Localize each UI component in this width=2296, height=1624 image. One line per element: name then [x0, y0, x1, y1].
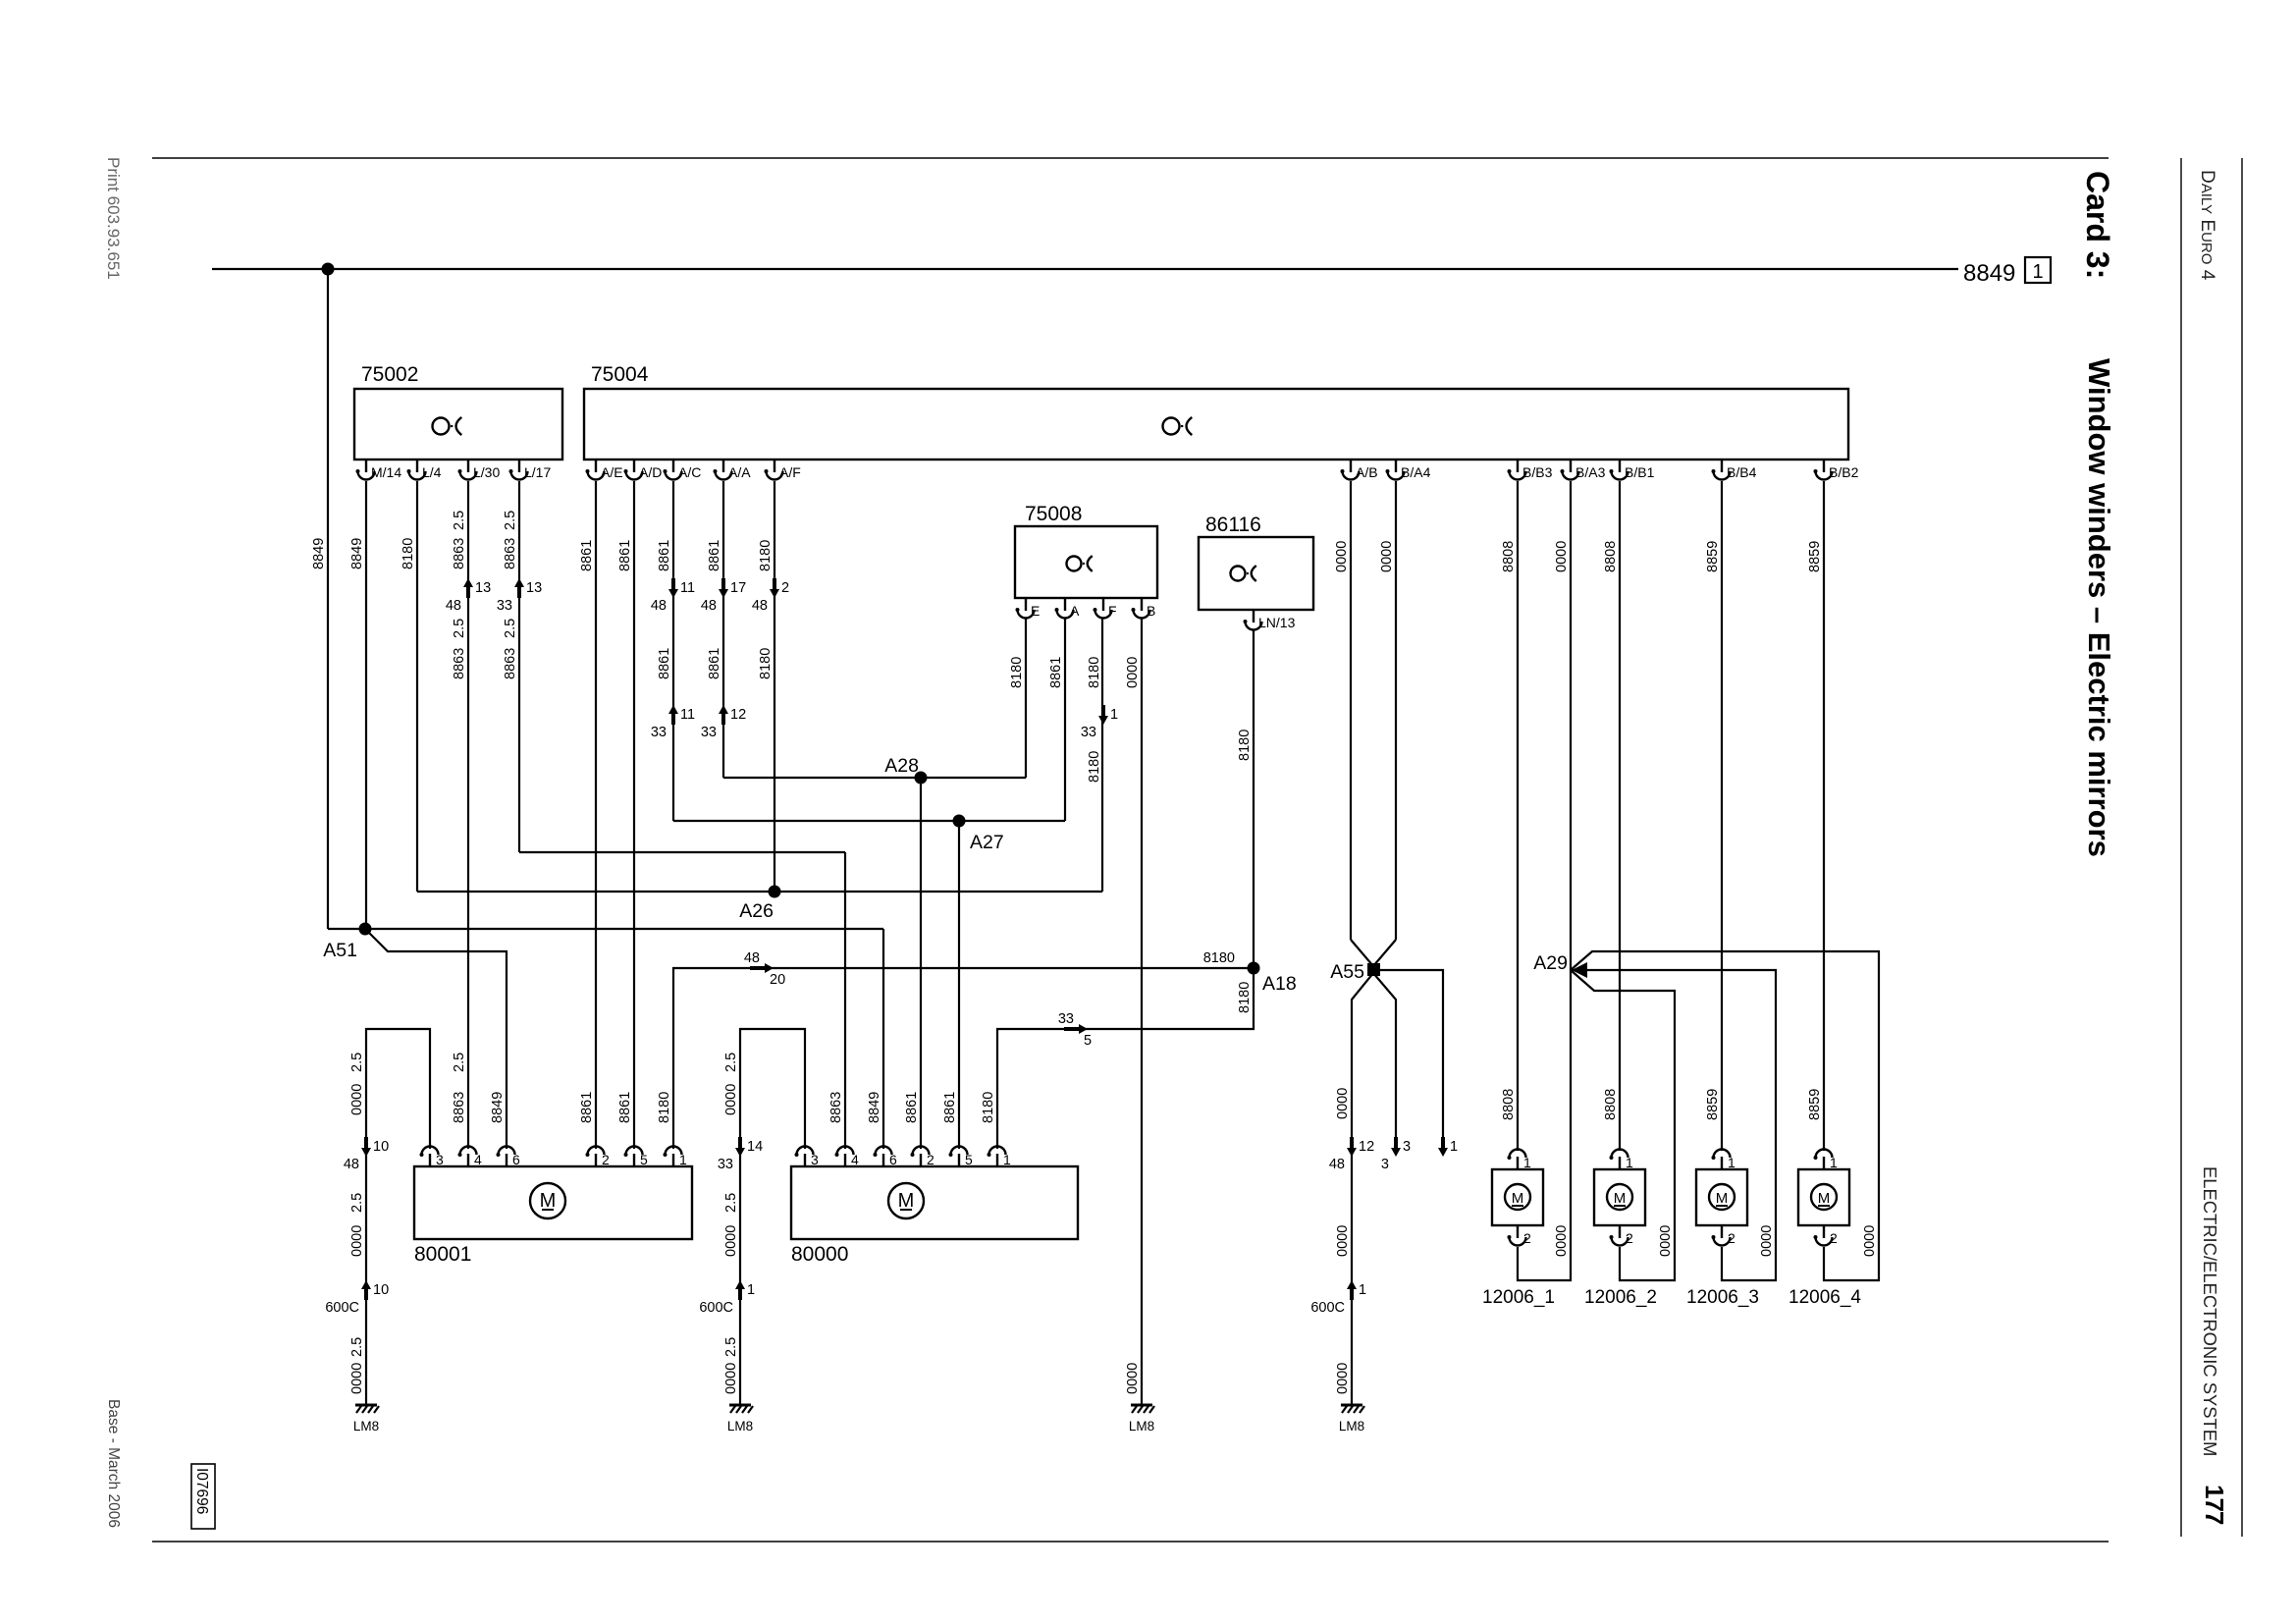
svg-text:1: 1 [1523, 1155, 1531, 1170]
svg-text:2.5: 2.5 [723, 1193, 739, 1213]
motor symbol in 12006_4 [1811, 1184, 1837, 1210]
svg-text:LN/13: LN/13 [1258, 615, 1296, 630]
svg-text:A55: A55 [1330, 961, 1364, 983]
wire 0000 from B/A3 through A29 to mirror 1 [1518, 481, 1571, 1280]
switch panel 75004 [584, 389, 1848, 460]
connector 48 pin 12 [1350, 1137, 1354, 1149]
svg-text:DAILY EURO 4: DAILY EURO 4 [2197, 170, 2217, 281]
wire 8863 from L/30 to 80001 pin 4 [467, 481, 469, 1149]
pin 2 of 12006_2 [1612, 1225, 1629, 1246]
svg-text:Card 3:: Card 3: [2080, 171, 2115, 279]
connector pin 1 stub [1441, 1137, 1445, 1149]
pin 1 of 12006_3 [1714, 1150, 1731, 1170]
svg-text:8180: 8180 [1087, 751, 1102, 783]
wire 80000 pin 3 to ground column [740, 1029, 805, 1405]
svg-text:A18: A18 [1262, 973, 1297, 995]
connector 48 pin 10 [364, 1137, 368, 1149]
wire A55 top-left diagonal [1351, 940, 1373, 966]
pin 2 of 12006_3 [1714, 1225, 1731, 1246]
svg-text:86116: 86116 [1205, 514, 1261, 536]
wire down to 80000 pin 5 [958, 821, 960, 1149]
pin 1 of 80001 [666, 1147, 682, 1167]
svg-text:B/A4: B/A4 [1401, 464, 1431, 480]
svg-text:8849: 8849 [349, 538, 365, 569]
svg-text:0000: 0000 [1759, 1225, 1775, 1257]
wire 8863 from L/17 [518, 481, 520, 852]
svg-text:8861: 8861 [617, 1092, 633, 1123]
svg-text:2.5: 2.5 [452, 511, 467, 530]
svg-text:2.5: 2.5 [349, 1053, 365, 1072]
motor symbol in 80001 [530, 1183, 565, 1218]
svg-text:B/B1: B/B1 [1625, 464, 1655, 480]
svg-text:33: 33 [1081, 725, 1096, 740]
svg-text:M: M [1716, 1190, 1729, 1207]
pin M/14 of 75002 [358, 460, 375, 480]
svg-text:0000: 0000 [349, 1084, 365, 1115]
pin A/B of 75004 [1343, 460, 1360, 480]
connector 33 pin 1 on 75008 pin F wire [1101, 705, 1105, 717]
svg-text:8861: 8861 [657, 540, 672, 571]
svg-text:A/A: A/A [728, 464, 751, 480]
pin B/B4 of 75004 [1714, 460, 1731, 480]
svg-text:600C: 600C [325, 1300, 359, 1316]
wire A29 bottom branch to mirror 2 return [1571, 970, 1675, 1280]
svg-text:8861: 8861 [904, 1092, 920, 1123]
lamp symbol in 75008 [1067, 557, 1082, 571]
svg-text:8861: 8861 [707, 648, 722, 679]
wire A55 to ground column [1352, 973, 1373, 1405]
wire 8180 from A/F to A26 [774, 481, 775, 892]
svg-text:L/30: L/30 [473, 464, 500, 480]
svg-text:48: 48 [1329, 1157, 1345, 1172]
pin A/A of 75004 [716, 460, 732, 480]
svg-text:2: 2 [1523, 1230, 1531, 1246]
pin E of 75008 [1018, 598, 1035, 619]
svg-text:6: 6 [889, 1152, 897, 1167]
svg-text:2.5: 2.5 [452, 619, 467, 638]
wire 8859 from B/B4 to mirror 3 [1721, 481, 1723, 1151]
svg-text:8180: 8180 [400, 538, 416, 569]
node A26 [769, 886, 781, 898]
svg-text:8859: 8859 [1705, 1089, 1721, 1120]
pin B of 75008 [1134, 598, 1150, 619]
wire A28 across [723, 777, 1026, 779]
svg-text:A26: A26 [739, 900, 774, 922]
svg-text:48: 48 [752, 598, 768, 614]
svg-text:8861: 8861 [707, 540, 722, 571]
svg-text:8849: 8849 [1963, 260, 2015, 287]
svg-text:33: 33 [718, 1157, 733, 1172]
motor symbol in 12006_1 [1505, 1184, 1530, 1210]
connector 600C pin 1 col2 [738, 1288, 742, 1300]
svg-text:8180: 8180 [981, 1092, 996, 1123]
svg-text:6: 6 [512, 1152, 520, 1167]
pin B/A3 of 75004 [1563, 460, 1579, 480]
svg-text:M: M [898, 1190, 915, 1212]
pin 4 of 80001 [460, 1147, 477, 1167]
connector 3 pin 3 [1394, 1137, 1398, 1149]
node A28 [915, 772, 928, 785]
wire 8859 from B/B2 to mirror 4 [1823, 481, 1825, 1151]
motor symbol in 12006_2 [1607, 1184, 1632, 1210]
svg-text:A29: A29 [1533, 952, 1568, 974]
svg-text:A27: A27 [970, 832, 1004, 853]
svg-text:8180: 8180 [758, 540, 774, 571]
svg-text:75004: 75004 [591, 363, 649, 386]
wire A51 branch to 80001 pin 6 [368, 932, 507, 1149]
svg-text:E: E [1031, 603, 1040, 619]
svg-text:8861: 8861 [579, 540, 595, 571]
switch 86116 [1199, 537, 1313, 610]
pin 5 of 80001 [626, 1147, 643, 1167]
svg-text:8863: 8863 [452, 648, 467, 679]
svg-text:LM8: LM8 [1339, 1419, 1364, 1434]
svg-text:8849: 8849 [867, 1092, 882, 1123]
svg-text:12: 12 [730, 707, 746, 723]
svg-text:Window winders – Electric mirr: Window winders – Electric mirrors [2082, 358, 2116, 857]
svg-text:5: 5 [1084, 1033, 1092, 1049]
connector 33 pin 12 on A/A wire [721, 713, 725, 725]
svg-text:2: 2 [781, 580, 789, 596]
svg-text:177: 177 [2200, 1485, 2229, 1525]
motor symbol in 12006_3 [1709, 1184, 1735, 1210]
svg-text:600C: 600C [699, 1300, 733, 1316]
pin 6 of 80001 [499, 1147, 515, 1167]
svg-text:33: 33 [497, 598, 512, 614]
svg-text:M: M [1818, 1190, 1831, 1207]
svg-text:17: 17 [730, 580, 746, 596]
pin A of 75008 [1057, 598, 1074, 619]
pin A/C of 75004 [666, 460, 682, 480]
wire A27 across [673, 820, 1065, 822]
svg-text:M: M [1614, 1190, 1627, 1207]
pin L/4 of 75002 [409, 460, 426, 480]
pin 2 of 12006_1 [1510, 1225, 1526, 1246]
svg-text:1: 1 [747, 1282, 755, 1298]
svg-text:48: 48 [744, 950, 760, 966]
pin L/30 of 75002 [460, 460, 477, 480]
svg-text:8861: 8861 [617, 540, 633, 571]
wire 8861 from A/A to A28 [722, 481, 724, 778]
svg-text:A28: A28 [884, 755, 919, 777]
svg-text:M/14: M/14 [371, 464, 401, 480]
connector 48 pin 13 on L/30 wire [466, 586, 470, 598]
pin 1 of 12006_2 [1612, 1150, 1629, 1170]
node A29 [1572, 962, 1587, 978]
svg-text:8849: 8849 [490, 1092, 506, 1123]
svg-text:8180: 8180 [657, 1092, 672, 1123]
svg-text:5: 5 [640, 1152, 648, 1167]
svg-text:A/D: A/D [639, 464, 662, 480]
svg-text:2.5: 2.5 [723, 1337, 739, 1357]
right separator rule 2 [2241, 158, 2243, 1537]
svg-text:M: M [540, 1190, 557, 1212]
switch 75002 [354, 389, 562, 460]
node A18 [1248, 962, 1260, 975]
svg-text:1: 1 [679, 1152, 687, 1167]
pin LN/13 of 86116 [1246, 610, 1262, 630]
pin 4 of 80000 [837, 1147, 854, 1167]
svg-text:80001: 80001 [414, 1243, 471, 1266]
svg-text:1: 1 [1626, 1155, 1633, 1170]
svg-text:0000: 0000 [1334, 541, 1350, 572]
svg-text:33: 33 [1058, 1011, 1074, 1027]
svg-text:11: 11 [680, 707, 695, 723]
svg-text:2.5: 2.5 [503, 511, 518, 530]
ground LM8 center [729, 1404, 751, 1407]
pin 1 of 80000 [989, 1147, 1006, 1167]
wire 8808 from B/B3 to mirror 1 [1517, 481, 1519, 1151]
svg-text:Print 603.93.651: Print 603.93.651 [104, 157, 123, 280]
connector 33 pin 13 on L/17 wire [517, 586, 521, 598]
svg-text:3: 3 [811, 1152, 819, 1167]
svg-text:0000: 0000 [1554, 541, 1570, 572]
pin 2 of 80001 [588, 1147, 605, 1167]
svg-text:B/B3: B/B3 [1522, 464, 1553, 480]
svg-text:8808: 8808 [1501, 1089, 1517, 1120]
wire 8180 from 80001 pin 1 to A18 [673, 968, 1254, 1149]
wire A29 middle branch to mirror 3 return [1571, 970, 1776, 1280]
wire 8808 from B/B1 to mirror 2 [1619, 481, 1621, 1151]
connector 48 pin 11 on A/C wire [671, 578, 675, 590]
wire up to 75008 pin F [1101, 619, 1103, 892]
svg-text:0000: 0000 [1379, 541, 1395, 572]
svg-text:12: 12 [1359, 1139, 1374, 1155]
page top rule [152, 157, 2109, 159]
wire A29 top branch to mirror 4 return [1571, 951, 1879, 1280]
svg-text:0000: 0000 [1125, 657, 1141, 688]
lamp symbol in 75002 [433, 418, 450, 435]
svg-text:8808: 8808 [1603, 1089, 1619, 1120]
mirror motor 12006_2 [1594, 1169, 1645, 1225]
svg-text:11: 11 [680, 580, 695, 596]
connector 600C pin 10 [364, 1288, 368, 1300]
svg-text:3: 3 [1403, 1139, 1411, 1155]
svg-text:8849: 8849 [311, 538, 327, 569]
svg-text:8861: 8861 [579, 1092, 595, 1123]
svg-text:LM8: LM8 [1129, 1419, 1154, 1434]
svg-text:8863: 8863 [828, 1092, 844, 1123]
pin 3 of 80001 [422, 1147, 439, 1167]
svg-text:1: 1 [1450, 1139, 1458, 1155]
svg-text:Base - March 2006: Base - March 2006 [105, 1399, 122, 1528]
wire 8861 from A/E to 80001 pin 2 [595, 481, 597, 1149]
lamp symbol in 86116 [1231, 567, 1246, 581]
node A55 [1367, 963, 1380, 976]
pin 1 of 12006_4 [1816, 1150, 1833, 1170]
svg-text:12006_2: 12006_2 [1584, 1287, 1657, 1308]
pin 5 of 80000 [951, 1147, 968, 1167]
svg-text:0000: 0000 [1862, 1225, 1878, 1257]
svg-text:8861: 8861 [657, 648, 672, 679]
svg-text:2: 2 [927, 1152, 934, 1167]
wire 0000 from B/A4 to A55 [1395, 481, 1397, 940]
svg-text:A/B: A/B [1356, 464, 1378, 480]
pin L/17 of 75002 [511, 460, 528, 480]
svg-text:L/4: L/4 [422, 464, 442, 480]
ground LM8 left [355, 1404, 377, 1407]
svg-text:2.5: 2.5 [349, 1193, 365, 1213]
svg-text:3: 3 [436, 1152, 444, 1167]
svg-text:80000: 80000 [791, 1243, 848, 1266]
svg-text:8861: 8861 [942, 1092, 958, 1123]
svg-text:LM8: LM8 [353, 1419, 379, 1434]
svg-text:1: 1 [1728, 1155, 1735, 1170]
switch 75008 [1015, 526, 1157, 598]
svg-text:8863: 8863 [503, 538, 518, 569]
svg-text:1: 1 [1359, 1282, 1366, 1298]
svg-text:8863: 8863 [503, 648, 518, 679]
svg-text:75008: 75008 [1025, 503, 1082, 525]
wire up to 75008 pin A [1064, 619, 1066, 821]
svg-text:2.5: 2.5 [452, 1053, 467, 1072]
svg-text:14: 14 [747, 1139, 763, 1155]
svg-text:B/A3: B/A3 [1575, 464, 1606, 480]
pin 6 of 80000 [876, 1147, 892, 1167]
svg-text:13: 13 [526, 580, 542, 596]
svg-text:2: 2 [602, 1152, 610, 1167]
svg-text:0000: 0000 [1658, 1225, 1674, 1257]
pin B/B1 of 75004 [1612, 460, 1629, 480]
svg-text:12006_3: 12006_3 [1686, 1287, 1759, 1308]
svg-text:8859: 8859 [1705, 541, 1721, 572]
wire L/17 across to 80000 pin 4 [519, 851, 845, 853]
svg-text:0000: 0000 [1335, 1088, 1351, 1119]
pin 3 of 80000 [797, 1147, 814, 1167]
pin A/D of 75004 [626, 460, 643, 480]
wire 8849 supply bus [212, 268, 1958, 270]
page bottom rule [152, 1541, 2109, 1543]
svg-text:B/B4: B/B4 [1727, 464, 1757, 480]
svg-text:0000: 0000 [1554, 1225, 1570, 1257]
ground LM8 right [1341, 1404, 1362, 1407]
svg-text:1: 1 [1830, 1155, 1838, 1170]
svg-text:1: 1 [1110, 707, 1118, 723]
svg-text:2: 2 [1830, 1230, 1838, 1246]
lamp symbol in 75004 [1163, 418, 1180, 435]
svg-text:2.5: 2.5 [503, 619, 518, 638]
svg-text:12006_4: 12006_4 [1789, 1287, 1861, 1308]
svg-text:2.5: 2.5 [723, 1053, 739, 1072]
wire 8861 from A/D to 80001 pin 5 [633, 481, 635, 1149]
wire 8861 from A/C to A27 [672, 481, 674, 821]
wire down to 80000 pin 4 [844, 852, 846, 1149]
pin F of 75008 [1095, 598, 1112, 619]
svg-text:ELECTRIC/ELECTRONIC SYSTEM: ELECTRIC/ELECTRONIC SYSTEM [2200, 1166, 2220, 1456]
connector 48 pin 2 on A/F wire [773, 578, 776, 590]
svg-text:8859: 8859 [1807, 1089, 1823, 1120]
connector 33 pin 14 [738, 1137, 742, 1149]
connector 33 pin 5 inline [1064, 1027, 1080, 1031]
svg-text:8180: 8180 [1009, 657, 1025, 688]
pin 2 of 80000 [913, 1147, 930, 1167]
pin B/B2 of 75004 [1816, 460, 1833, 480]
svg-text:2.5: 2.5 [349, 1337, 365, 1357]
wire down to 80000 pin 2 [920, 778, 922, 1149]
svg-text:8861: 8861 [1048, 657, 1064, 688]
svg-text:8180: 8180 [1237, 982, 1253, 1013]
pin B/A4 of 75004 [1388, 460, 1405, 480]
svg-text:L/17: L/17 [524, 464, 551, 480]
svg-text:8808: 8808 [1603, 541, 1619, 572]
wire 0000 from A/B to A55 [1350, 481, 1352, 940]
svg-text:20: 20 [770, 972, 785, 988]
svg-text:A/C: A/C [678, 464, 701, 480]
svg-text:600C: 600C [1310, 1300, 1345, 1316]
svg-text:10: 10 [373, 1139, 389, 1155]
svg-text:8863: 8863 [452, 538, 467, 569]
svg-text:0000: 0000 [349, 1363, 365, 1394]
pin B/B3 of 75004 [1510, 460, 1526, 480]
svg-text:8808: 8808 [1501, 541, 1517, 572]
svg-text:F: F [1108, 603, 1117, 619]
motor 80001 [414, 1166, 692, 1239]
svg-text:A: A [1070, 603, 1080, 619]
wire 0000 from 75008 pin B to ground [1141, 619, 1143, 1405]
svg-text:8180: 8180 [1203, 950, 1235, 966]
svg-text:5: 5 [965, 1152, 973, 1167]
wire A26 across [417, 891, 1102, 893]
svg-text:8180: 8180 [1237, 730, 1253, 761]
svg-text:A/E: A/E [601, 464, 623, 480]
svg-text:1: 1 [1003, 1152, 1011, 1167]
wire 8180 from 86116 LN/13 to A18 [1253, 630, 1255, 968]
wire 8180 from L/4 to A26 line [416, 481, 418, 892]
svg-text:48: 48 [344, 1157, 359, 1172]
pin A/E of 75004 [588, 460, 605, 480]
svg-text:48: 48 [651, 598, 667, 614]
svg-text:A51: A51 [323, 940, 357, 961]
svg-text:I07696: I07696 [193, 1468, 210, 1514]
motor symbol in 80000 [888, 1183, 924, 1218]
connector 48 pin 20 inline [750, 966, 766, 970]
pin A/F of 75004 [767, 460, 783, 480]
svg-text:48: 48 [446, 598, 461, 614]
svg-text:0000: 0000 [1125, 1363, 1141, 1394]
ground LM8 for 75008 [1131, 1404, 1152, 1407]
svg-text:2: 2 [1728, 1230, 1735, 1246]
mirror motor 12006_4 [1798, 1169, 1849, 1225]
svg-text:0000: 0000 [723, 1084, 739, 1115]
svg-text:M: M [1512, 1190, 1524, 1207]
svg-text:A/F: A/F [779, 464, 801, 480]
svg-text:0000: 0000 [723, 1363, 739, 1394]
svg-text:0000: 0000 [723, 1225, 739, 1257]
svg-text:33: 33 [701, 725, 717, 740]
pin 1 of 12006_1 [1510, 1150, 1526, 1170]
connector 600C pin 1 col4 [1350, 1288, 1354, 1300]
svg-text:75002: 75002 [361, 363, 418, 386]
wire down to 80000 pin 6 [882, 929, 884, 1149]
svg-text:8863: 8863 [452, 1092, 467, 1123]
junction on 8849 bus [322, 263, 335, 276]
svg-text:1: 1 [2032, 261, 2043, 283]
connector 33 pin 11 on A/C wire [671, 713, 675, 725]
svg-text:48: 48 [701, 598, 717, 614]
motor 80000 [791, 1166, 1078, 1239]
svg-text:3: 3 [1381, 1157, 1389, 1172]
svg-text:0000: 0000 [1335, 1363, 1351, 1394]
wire 8849 from M/14 to A51 [365, 481, 367, 929]
svg-text:4: 4 [851, 1152, 859, 1167]
wire A55 to connector 3 [1373, 973, 1396, 1149]
svg-text:10: 10 [373, 1282, 389, 1298]
wire 80001 pin 3 to ground column [366, 1029, 430, 1405]
wire 8849 bus drop [327, 269, 329, 929]
svg-text:12006_1: 12006_1 [1482, 1287, 1555, 1308]
svg-text:LM8: LM8 [727, 1419, 753, 1434]
mirror motor 12006_1 [1492, 1169, 1543, 1225]
